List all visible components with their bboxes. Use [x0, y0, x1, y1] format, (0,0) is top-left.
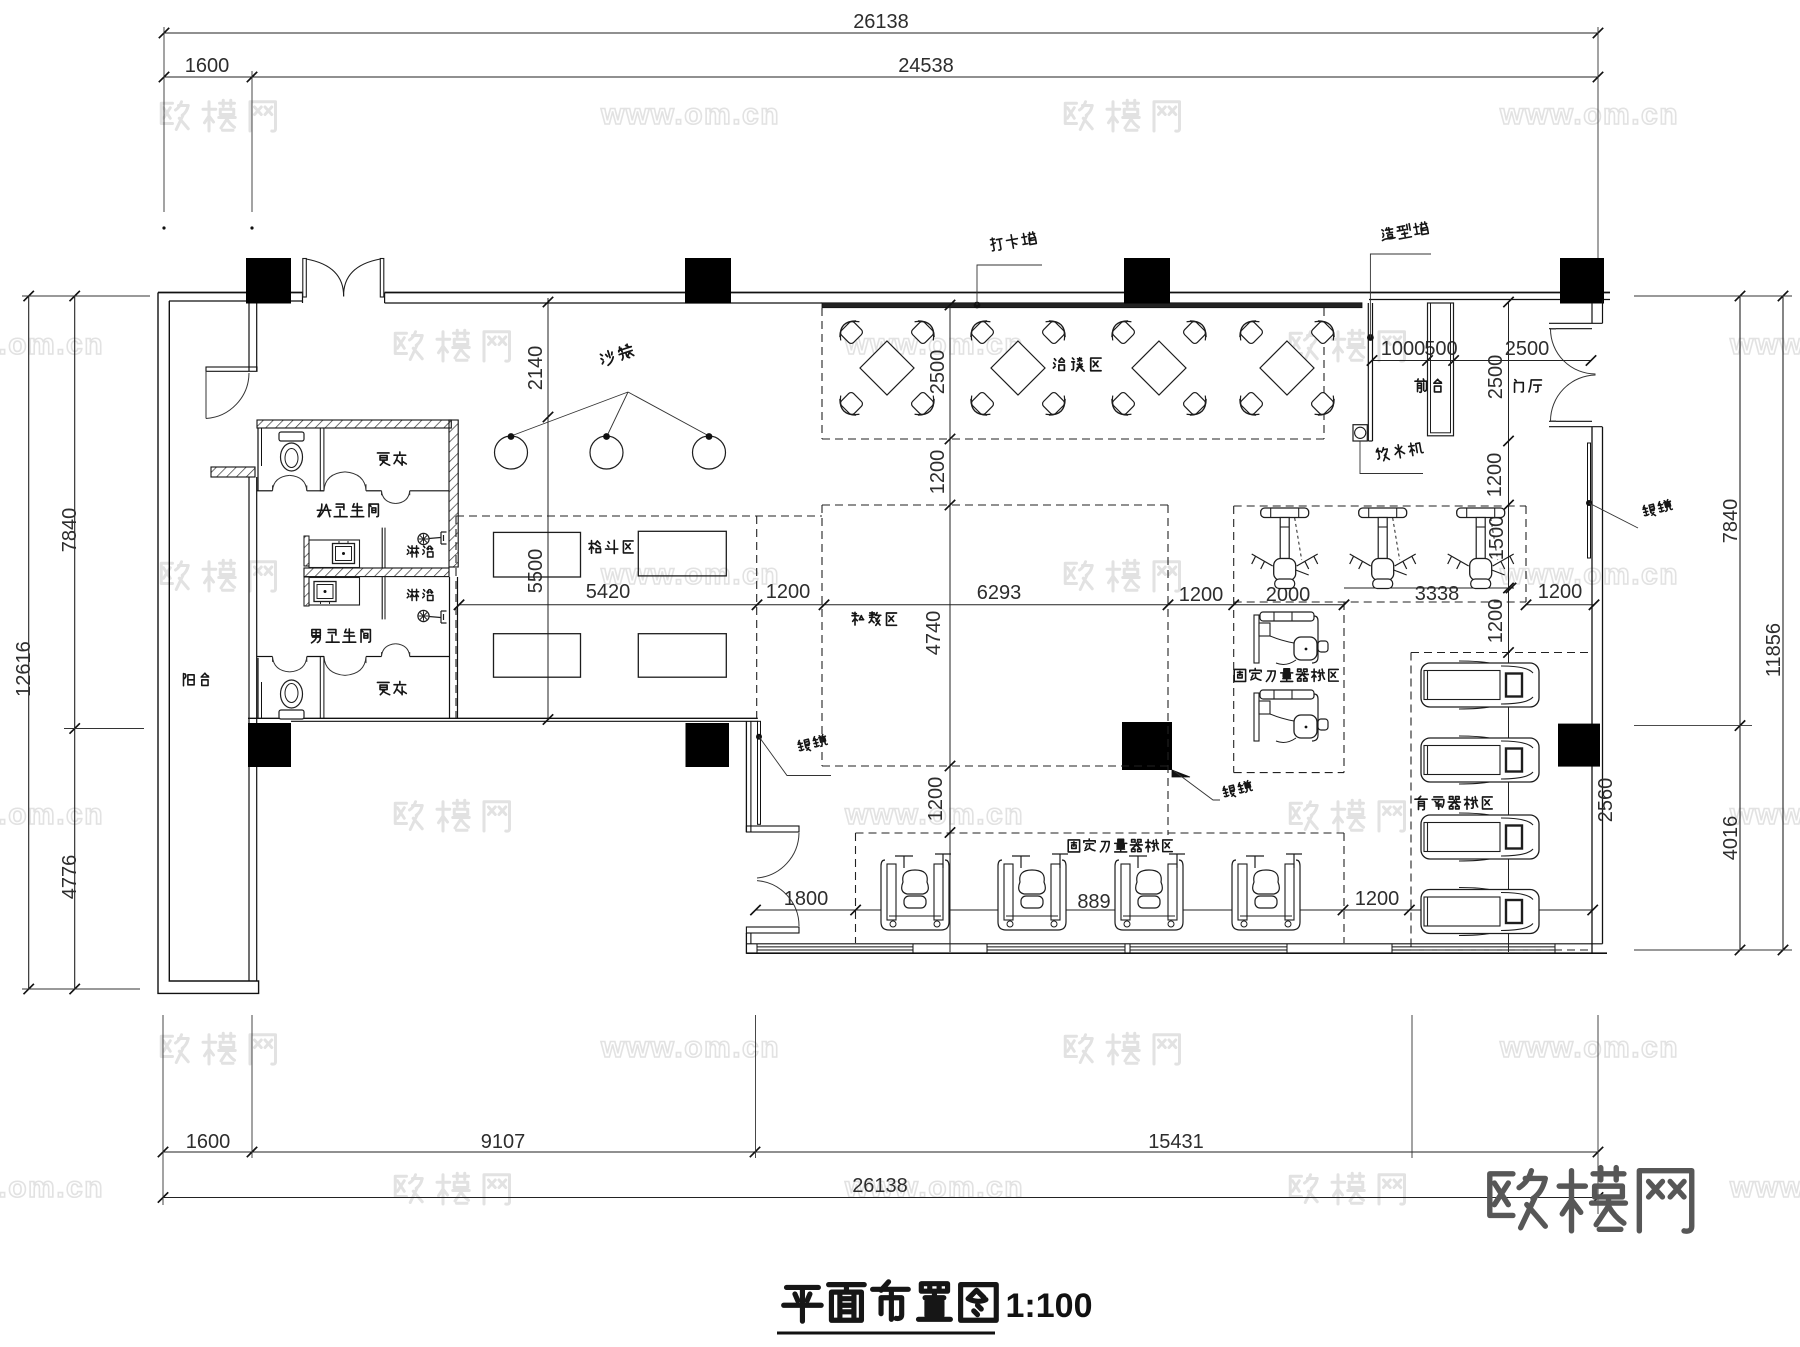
svg-text:1:100: 1:100 [1006, 1287, 1093, 1325]
svg-text:www.om.cn: www.om.cn [1499, 1031, 1679, 1064]
shower head 2 [418, 610, 447, 623]
mat 2 [638, 531, 726, 576]
bench machine 4 [1232, 854, 1302, 930]
shower head 1 [418, 532, 447, 545]
svg-text:1200: 1200 [925, 777, 947, 822]
front desk [1428, 303, 1454, 436]
label 有氧器械区 [1415, 796, 1427, 810]
svg-text:6293: 6293 [977, 582, 1022, 604]
treadmill 4 [1421, 888, 1539, 936]
svg-text:4016: 4016 [1720, 816, 1742, 861]
horizontal chain y=604.8 : 5420/1200/6293/1200/2000 [459, 604, 1344, 606]
3338 dim segment [1344, 587, 1514, 589]
label 洽谈区 [1053, 358, 1064, 370]
svg-text:1200: 1200 [1485, 599, 1507, 644]
svg-text:1000: 1000 [1381, 338, 1426, 360]
left wall to bottom corner [745, 933, 747, 954]
label 私教区 [852, 612, 864, 625]
partition vestibule/更衣 top [320, 428, 324, 491]
treadmill 3 [1421, 813, 1539, 861]
svg-text:7840: 7840 [1720, 499, 1742, 544]
partition vestibule/更衣 bottom [320, 657, 324, 719]
svg-text:1800: 1800 [784, 888, 829, 910]
svg-text:5500: 5500 [525, 549, 547, 594]
toilet 1 [279, 432, 304, 471]
vertical grid line x=1508.5 with dims 2500/1200/1500/1200 [1508, 302, 1510, 952]
svg-text:www.om.cn: www.om.cn [0, 1171, 104, 1204]
svg-text:2500: 2500 [1505, 338, 1550, 360]
svg-text:889: 889 [1077, 891, 1110, 913]
sandbag 2 [590, 436, 623, 469]
extension lines right [1634, 295, 1792, 297]
double entrance door leaves+arcs [303, 259, 307, 298]
sink unit lower [309, 578, 360, 606]
svg-text:2500: 2500 [927, 350, 949, 395]
door M 男卫 [382, 644, 396, 657]
pec machine 2 [1254, 690, 1328, 742]
mat 3 [494, 634, 581, 678]
wall y=657 segments [257, 656, 273, 658]
fixed-strength top dashed zone [1234, 505, 1526, 507]
title 平面布置图 [784, 1287, 822, 1321]
shoulder machine 1 [1252, 508, 1318, 589]
svg-text:12616: 12616 [13, 641, 35, 697]
right wall top segment [1591, 303, 1593, 323]
dim left 12616 [28, 296, 30, 989]
sink unit upper [309, 540, 360, 568]
big logo 欧模网 [1490, 1171, 1546, 1228]
沙袋 leader + label [511, 392, 709, 436]
svg-text:1200: 1200 [1538, 581, 1583, 603]
toilet block hatched walls [257, 420, 451, 428]
right wall below entrance [1591, 427, 1593, 953]
entrance double door right [1551, 329, 1596, 374]
balcony right wall upper partition [248, 304, 250, 372]
label 门厅 [1515, 380, 1524, 393]
dim top 1600 / 24538 [164, 76, 1598, 78]
watermark grid [161, 102, 188, 130]
bench machine 1 [881, 854, 951, 930]
block left wall upper [257, 428, 259, 491]
洽谈区 dashed zone [821, 308, 823, 439]
dim left 7840 / 4776 [74, 296, 76, 989]
bottom wall window bands [757, 946, 913, 948]
leader 银镜 left [759, 737, 831, 776]
shower partition top [381, 528, 383, 568]
block right wall lower plain [449, 577, 451, 718]
bench machine 3 [1115, 854, 1185, 930]
svg-text:15431: 15431 [1148, 1131, 1204, 1153]
svg-text:4776: 4776 [59, 855, 81, 900]
wall y=490.8 segments [257, 490, 273, 492]
treadmill 1 [1421, 661, 1539, 709]
svg-text:7840: 7840 [59, 508, 81, 553]
check-in feature wall band (打卡墙) [822, 303, 1362, 308]
door leaf+arc lower [757, 881, 799, 926]
door M 更衣 top [324, 472, 345, 491]
label 淋浴 2 [407, 589, 418, 600]
door M vestibule top [273, 475, 290, 490]
svg-text:www.om.cn: www.om.cn [0, 798, 104, 831]
table set 1 [835, 316, 940, 421]
shoulder machine 2 [1350, 508, 1416, 589]
shoulder machine 3 [1448, 508, 1514, 589]
mirror strip on wall (银镜) [758, 721, 761, 824]
front desk chain 1000/500/2500 [1372, 360, 1591, 362]
extension lines bottom [162, 1015, 164, 1205]
leader 造型墙 [1370, 254, 1431, 338]
svg-text:1600: 1600 [186, 1131, 231, 1153]
dim right 7840 / 4016 [1739, 296, 1741, 950]
svg-text:1200: 1200 [1484, 453, 1506, 498]
top wall outer line [158, 292, 303, 294]
svg-text:1200: 1200 [766, 581, 811, 603]
label 更衣 top [377, 453, 389, 465]
label 阳台 [184, 674, 195, 686]
svg-text:www.om.cn: www.om.cn [0, 328, 104, 361]
vertical grid line x=950 with dims 2500/1200/4740/1200 [949, 305, 951, 952]
label 更衣 bottom [377, 682, 389, 694]
foyer stub walls [1549, 322, 1603, 324]
svg-text:2560: 2560 [1595, 778, 1617, 823]
column C4b (right wall) [1558, 724, 1600, 767]
sandbag 1 [495, 436, 528, 469]
svg-text:1600: 1600 [185, 55, 230, 77]
label 格斗区 [589, 541, 601, 554]
column C4 [1560, 258, 1604, 304]
extension lines top [163, 27, 165, 212]
aerobic dashed zone [1411, 652, 1593, 654]
door stub upper (1800 door) [746, 826, 799, 832]
wall corner down to door [745, 721, 747, 832]
water dispenser [1353, 425, 1367, 441]
lower-left hall wall [248, 717, 758, 719]
svg-text:24538: 24538 [898, 55, 954, 77]
toilet 2 [279, 680, 304, 719]
leader 打卡墙 [974, 302, 981, 309]
svg-text:www.om.cn: www.om.cn [600, 1031, 780, 1064]
bottom chain y=910 : 1800/889/1200/3500 [756, 909, 1593, 911]
column C1 [246, 258, 291, 304]
svg-text:11856: 11856 [1763, 623, 1785, 677]
dim bottom 26138 [163, 1197, 1598, 1199]
svg-text:www.om.cn: www.om.cn [600, 98, 780, 131]
svg-text:26138: 26138 [853, 11, 909, 33]
shower partition bottom [381, 577, 383, 619]
vertical grid line x=548 with dims 2140/5500 [547, 298, 549, 720]
svg-text:1200: 1200 [1179, 584, 1224, 606]
column C2 [685, 258, 731, 304]
label 固定力量器械区 bottom [1068, 840, 1079, 852]
top wall inner line left section [169, 300, 303, 302]
block left wall lower [257, 658, 259, 718]
svg-text:26138: 26138 [852, 1175, 908, 1197]
balcony right wall lower [248, 477, 250, 723]
door to balcony corridor [206, 373, 249, 419]
door leaf+arc upper [757, 833, 799, 878]
column C2b [686, 723, 730, 767]
bottom wall double lines [746, 943, 1602, 945]
table set 3 [1107, 316, 1212, 421]
bottom fixed-strength dashed zone [856, 832, 1345, 834]
svg-text:www.om.cn: www.om.cn [1499, 98, 1679, 131]
dim right 11856 [1782, 296, 1784, 950]
table set 4 [1235, 316, 1340, 421]
svg-text:9107: 9107 [481, 1131, 526, 1153]
door stub lower [746, 927, 799, 933]
entrance door jambs top-left [302, 293, 304, 304]
sandbag 3 [693, 436, 726, 469]
balcony outer walls [158, 293, 259, 994]
leader 银镜 center [1174, 771, 1220, 800]
interior column C5 + mirror wedge [1122, 722, 1172, 770]
造型墙 feature wall [1367, 303, 1369, 441]
mirror strip right wall [1588, 443, 1591, 558]
table set 2 [966, 316, 1071, 421]
pec machine 1 [1254, 612, 1328, 664]
svg-text:3338: 3338 [1415, 583, 1460, 605]
right 1200 dim segment [1526, 604, 1594, 606]
leader 饮水机 [1360, 441, 1423, 474]
svg-text:1200: 1200 [1355, 888, 1400, 910]
svg-text:4740: 4740 [923, 611, 945, 656]
extension lines left [22, 295, 150, 297]
door M vestibule bottom [273, 657, 290, 672]
label 淋浴 1 [407, 546, 418, 557]
column C1b [248, 723, 291, 767]
bench machine 2 [998, 854, 1068, 930]
column C3 [1124, 258, 1170, 304]
私教区 dashed zone [822, 504, 1168, 506]
dim bottom 1600 / 9107 / 15431 [163, 1151, 1598, 1153]
svg-text:2140: 2140 [525, 346, 547, 391]
leader 银镜 right [1589, 503, 1638, 528]
balcony right wall below column [248, 767, 250, 981]
treadmill 2 [1421, 736, 1539, 784]
svg-text:500: 500 [1424, 338, 1457, 360]
label 前台 [1415, 379, 1427, 392]
格斗区 dashed zone [456, 515, 822, 517]
door M 更衣 bottom [324, 657, 345, 676]
top wall inner line right section [1369, 299, 1610, 301]
svg-text:2500: 2500 [1485, 355, 1507, 400]
top wall inner line mid [385, 302, 822, 304]
wall across balcony corridor [206, 367, 257, 371]
svg-text:5420: 5420 [586, 581, 631, 603]
label 女卫生间 [317, 504, 331, 517]
mat 1 [494, 532, 581, 577]
dim top 26138 [164, 32, 1598, 34]
corridor stub wall [211, 467, 255, 477]
svg-text:1200: 1200 [927, 450, 949, 495]
door M 女卫 [382, 491, 396, 504]
fixed-strength left dashed zone [1343, 602, 1345, 773]
mat 4 [638, 634, 726, 678]
label 固定力量器械区 left [1234, 669, 1245, 681]
label 男卫生间 [312, 630, 321, 643]
svg-text:www.om.cn: www.om.cn [1729, 1171, 1800, 1204]
